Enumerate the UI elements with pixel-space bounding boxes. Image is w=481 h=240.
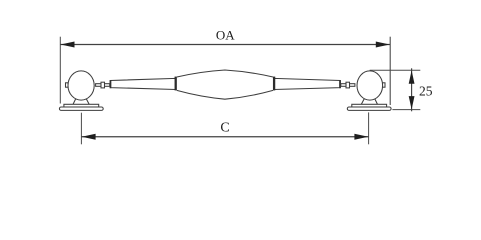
left collar	[101, 82, 105, 88]
left nub	[66, 83, 69, 87]
dimension OA line	[60, 44, 390, 46]
right rod end cap	[339, 80, 341, 88]
dimension OA extension line right	[389, 37, 391, 105]
left neck 2	[105, 84, 110, 87]
dimension C extension line left	[80, 113, 82, 145]
right collar	[346, 82, 350, 88]
dimension 25 extension line top	[370, 69, 421, 71]
dimension C extension line right	[368, 112, 370, 144]
arrowhead OA left	[61, 42, 75, 48]
svg-text:C: C	[220, 121, 229, 136]
arrowhead C right	[354, 134, 368, 140]
right upper base plate	[352, 104, 387, 107]
right lower base plate	[347, 107, 391, 110]
arrowhead 25 up	[409, 70, 415, 83]
left lower base plate	[59, 107, 103, 110]
left ball	[68, 71, 94, 100]
body left end bar	[175, 77, 177, 91]
left neck 1	[96, 84, 101, 87]
dimension 25 extension line bottom	[392, 109, 420, 111]
right neck 2	[341, 84, 346, 87]
body right end bar	[273, 77, 275, 91]
svg-text:OA: OA	[216, 27, 235, 42]
arrowhead 25 down	[409, 96, 415, 109]
right neck 1	[350, 84, 355, 87]
left rod	[110, 78, 176, 89]
right rod	[274, 78, 340, 89]
right pedestal slant lines	[361, 99, 377, 104]
arrowhead C left	[82, 134, 96, 140]
left upper base plate	[64, 104, 99, 107]
svg-text:25: 25	[419, 83, 433, 98]
right ball	[357, 71, 383, 100]
left rod end cap	[110, 80, 112, 88]
right nub	[382, 83, 385, 87]
dimension C line	[81, 136, 368, 138]
body outline	[177, 70, 273, 99]
arrowhead OA right	[376, 42, 390, 48]
left pedestal slant lines	[73, 99, 89, 104]
dimension OA extension line left	[59, 37, 61, 104]
dimension 25 line	[411, 68, 413, 111]
